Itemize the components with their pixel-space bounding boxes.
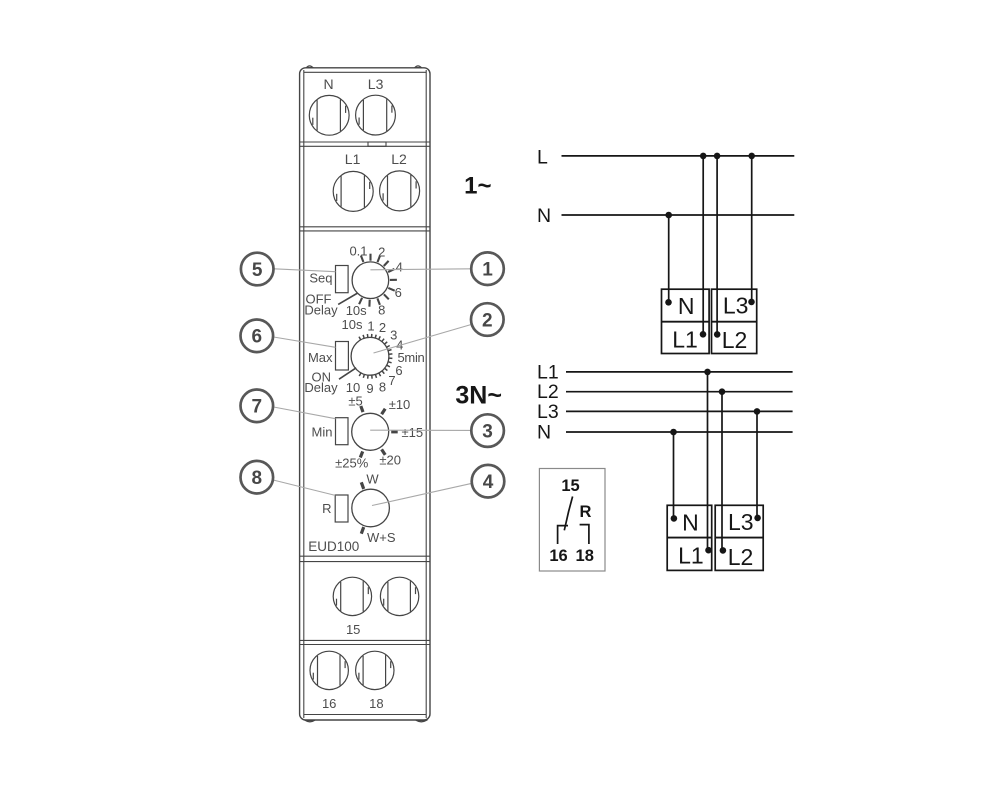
wire L (1~ phase bus): [562, 155, 795, 157]
svg-text:±5: ±5: [348, 394, 362, 409]
wire N (1~ neutral bus): [562, 214, 795, 216]
terminal screw L1: [333, 171, 373, 211]
leader line dial4 to callout 4: [372, 483, 472, 505]
wire N-drop to terminal N (3N~): [673, 432, 675, 518]
slide switch Min: [336, 418, 349, 445]
device top clips: [307, 66, 313, 68]
svg-text:±20: ±20: [379, 453, 401, 468]
svg-text:±15: ±15: [402, 425, 424, 440]
leader line dial3 to callout 3: [370, 429, 471, 431]
svg-text:10s: 10s: [346, 303, 367, 318]
terminal box 3N~ right half: [715, 505, 763, 570]
svg-text:3N~: 3N~: [455, 381, 502, 409]
svg-text:L1: L1: [537, 361, 559, 383]
svg-text:16: 16: [322, 696, 336, 711]
svg-text:±10: ±10: [389, 397, 411, 412]
device section divider lines: [300, 142, 430, 645]
dial 3 thick ticks: [360, 406, 397, 458]
rotary dial 2 ON delay knob: [351, 337, 389, 375]
svg-text:18: 18: [369, 696, 383, 711]
svg-text:Delay: Delay: [304, 303, 338, 318]
wire L2-drop to terminal L2 (3N~): [721, 392, 723, 551]
dial 2 knurled ticks: [359, 334, 392, 379]
leader line dial2 to callout 2: [374, 325, 472, 354]
leader line callout 5 to Seq switch: [274, 269, 336, 272]
dial 3 scale labels: [335, 394, 423, 471]
svg-text:8: 8: [252, 468, 263, 489]
svg-text:L1: L1: [345, 151, 361, 167]
svg-text:0.1: 0.1: [349, 243, 367, 258]
svg-text:L3: L3: [728, 509, 754, 535]
relay contact lever: [564, 497, 572, 531]
wire N bus (3N~): [566, 431, 793, 433]
terminal box 1~ right half: [712, 289, 757, 353]
svg-text:W: W: [366, 472, 379, 487]
svg-text:6: 6: [395, 285, 402, 300]
svg-text:Seq: Seq: [309, 271, 332, 286]
relay contact 16 (NC): [558, 526, 568, 544]
wire L1-drop to terminal L1 (3N~): [707, 372, 709, 550]
svg-text:8: 8: [379, 380, 386, 395]
dial 1 scale labels: [346, 243, 403, 318]
callout circle 4: [472, 465, 505, 498]
svg-text:W+S: W+S: [367, 530, 396, 545]
callout circle 3: [471, 414, 504, 447]
svg-text:2: 2: [378, 244, 385, 259]
slide switch Max: [336, 342, 349, 371]
dial 2 pointer mark: [339, 368, 356, 379]
terminal connection dots (1~ box): [665, 299, 672, 306]
wire L2 bus (3N~): [566, 391, 793, 393]
rotary dial 4 mode knob: [352, 489, 390, 527]
svg-text:L1: L1: [672, 326, 698, 352]
svg-text:1: 1: [482, 260, 493, 281]
callout circle 7: [240, 390, 273, 423]
svg-text:2: 2: [482, 310, 493, 331]
svg-text:L: L: [537, 146, 548, 168]
svg-text:L3: L3: [537, 401, 559, 423]
svg-text:6: 6: [395, 363, 402, 378]
wire L-drop to terminal L2: [716, 156, 718, 335]
callout circle 6: [240, 320, 273, 353]
terminal screw L3: [356, 95, 396, 135]
leader line callout 6 to Max switch: [274, 337, 336, 347]
svg-text:L1: L1: [678, 542, 704, 568]
svg-text:L2: L2: [391, 151, 407, 167]
junctions on L bus: [700, 153, 707, 160]
svg-text:16: 16: [549, 547, 567, 565]
callout circle 5: [241, 253, 274, 286]
svg-text:1: 1: [367, 319, 374, 334]
dial 1 pointer mark: [338, 293, 358, 304]
dial 4 thick ticks: [361, 482, 363, 533]
svg-text:EUD100: EUD100: [308, 539, 359, 554]
svg-text:7: 7: [388, 373, 395, 388]
terminal connection dots (3N~ box): [671, 515, 678, 522]
svg-text:4: 4: [483, 472, 494, 493]
terminal screw 15-right: [380, 577, 418, 615]
rotary dial 3 tolerance knob: [352, 413, 389, 450]
terminal box 1~ middle lines: [662, 321, 710, 323]
svg-text:L3: L3: [368, 76, 384, 92]
svg-text:7: 7: [252, 397, 263, 418]
relay contact detail box: [539, 469, 605, 572]
terminal box 3N~ left half: [667, 505, 712, 570]
wire L3 bus (3N~): [566, 410, 793, 412]
terminal screw 18: [356, 651, 394, 689]
dial 2 scale labels: [342, 317, 425, 396]
leader line callout 7 to Min switch: [274, 407, 336, 419]
callout circle 8: [240, 461, 273, 494]
svg-text:8: 8: [378, 302, 385, 317]
terminal box 1~ left half: [662, 289, 710, 353]
wire N-drop to terminal N: [668, 215, 670, 302]
wire L-drop to terminal L3: [751, 156, 753, 302]
svg-text:Delay: Delay: [304, 380, 338, 395]
device bottom feet: [306, 720, 315, 721]
wire L3-drop to terminal L3 (3N~): [756, 411, 758, 518]
svg-text:6: 6: [252, 327, 263, 348]
terminal screw L2: [380, 171, 420, 211]
dial 1 scale ticks: [359, 254, 397, 307]
svg-text:5: 5: [252, 260, 263, 281]
svg-text:R: R: [322, 501, 331, 516]
svg-text:4: 4: [396, 260, 403, 275]
wire L-drop to terminal L1: [702, 156, 704, 334]
junction on N bus: [665, 212, 672, 219]
svg-text:L2: L2: [722, 327, 748, 353]
svg-text:10s: 10s: [342, 317, 363, 332]
leader line dial1 to callout 1: [370, 269, 471, 270]
leader line callout 8 to R switch: [273, 480, 335, 495]
svg-text:R: R: [580, 503, 592, 521]
terminal screw 15-left: [333, 577, 371, 615]
svg-text:N: N: [324, 76, 334, 92]
wire L1 bus (3N~): [566, 371, 793, 373]
svg-text:1~: 1~: [464, 173, 491, 200]
svg-text:Min: Min: [312, 425, 333, 440]
slide switch R: [335, 495, 348, 522]
rotary dial 1 OFF delay knob: [352, 262, 389, 299]
svg-text:N: N: [537, 205, 551, 227]
terminal screw 16: [310, 651, 348, 689]
svg-text:15: 15: [561, 477, 579, 495]
svg-text:N: N: [537, 422, 551, 444]
relay contact 18 (NO): [580, 525, 589, 544]
svg-text:2: 2: [379, 320, 386, 335]
svg-text:L3: L3: [723, 293, 749, 319]
callout circle 2: [471, 303, 504, 336]
slide switch Seq: [336, 266, 349, 293]
svg-text:18: 18: [576, 547, 594, 565]
device EUD100 body outline: [300, 68, 430, 720]
junctions on 3N~ buses: [704, 369, 711, 376]
svg-text:L2: L2: [537, 381, 559, 403]
svg-text:3: 3: [482, 421, 493, 442]
svg-text:15: 15: [346, 622, 360, 637]
divider tab: [368, 142, 386, 146]
callout circle 1: [471, 252, 504, 285]
svg-text:Max: Max: [308, 350, 333, 365]
svg-text:L2: L2: [728, 544, 754, 570]
terminal box 3N~ middle lines: [667, 537, 712, 539]
svg-text:9: 9: [366, 381, 373, 396]
terminal screw N: [309, 95, 349, 135]
svg-text:N: N: [678, 293, 695, 319]
svg-text:±25%: ±25%: [335, 456, 369, 471]
svg-text:N: N: [682, 509, 699, 535]
